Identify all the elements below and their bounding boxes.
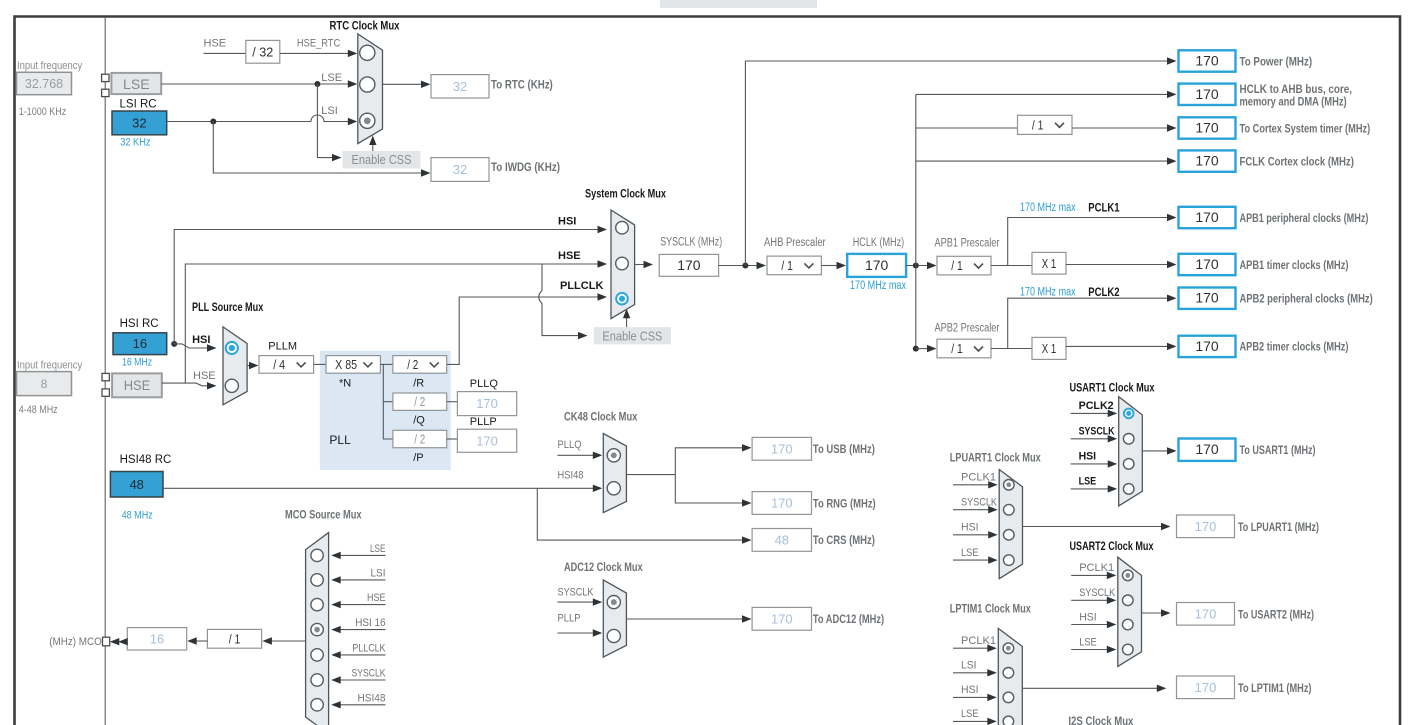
svg-text:HSI: HSI — [558, 215, 576, 227]
svg-text:PCLK1: PCLK1 — [1088, 203, 1120, 215]
svg-text:/ 2: / 2 — [414, 432, 425, 447]
svg-text:170: 170 — [1195, 86, 1219, 102]
svg-text:16: 16 — [133, 336, 147, 351]
svg-text:MCO Source Mux: MCO Source Mux — [285, 508, 362, 522]
svg-text:170: 170 — [771, 611, 793, 626]
stub HSE to MCO mux — [340, 604, 386, 606]
PLL internal connector — [380, 364, 393, 439]
svg-text:/Q: /Q — [413, 415, 425, 427]
svg-text:/P: /P — [413, 452, 423, 464]
svg-text:HSE_RTC: HSE_RTC — [297, 37, 340, 49]
svg-text:32: 32 — [453, 79, 467, 94]
stub HSI to LPTIM1 mux — [953, 696, 988, 698]
svg-text:32.768: 32.768 — [25, 77, 63, 91]
To LPUART1 output box — [1177, 515, 1235, 538]
PLLM divider dropdown /4 — [259, 356, 314, 374]
svg-text:170: 170 — [1195, 209, 1219, 225]
svg-text:APB2 peripheral clocks (MHz): APB2 peripheral clocks (MHz) — [1240, 292, 1373, 306]
wire Cortex divider to output — [1072, 127, 1168, 129]
AHB prescaler dropdown /1 — [767, 256, 821, 275]
stub PLLCLK to MCO mux — [340, 654, 386, 656]
FCLK Cortex output box — [1179, 150, 1236, 171]
wire PLLCLK /R to System Clock Mux — [447, 297, 599, 364]
svg-text:170: 170 — [1195, 338, 1219, 354]
svg-text:170: 170 — [1195, 441, 1219, 457]
svg-text:HSE: HSE — [193, 370, 216, 382]
svg-text:Enable CSS: Enable CSS — [602, 328, 662, 343]
svg-text:APB1 Prescaler: APB1 Prescaler — [935, 238, 1000, 250]
stub PCLK1 to LPTIM1 mux — [953, 647, 988, 649]
svg-text:To LPUART1 (MHz): To LPUART1 (MHz) — [1238, 520, 1319, 534]
svg-text:HSI: HSI — [1079, 611, 1097, 623]
svg-text:USART2 Clock Mux: USART2 Clock Mux — [1070, 539, 1154, 553]
wire LPTIM1 mux to output — [1022, 687, 1158, 689]
svg-text:/ 1: / 1 — [951, 258, 963, 273]
stub PCLK1 to LPUART1 mux — [953, 484, 989, 486]
svg-text:LPUART1 Clock Mux: LPUART1 Clock Mux — [950, 450, 1041, 464]
To LPTIM1 output box — [1177, 676, 1235, 699]
svg-text:/ 1: / 1 — [951, 341, 963, 356]
stub PLLP to ADC12 mux — [558, 632, 595, 634]
svg-text:PLL Source Mux: PLL Source Mux — [192, 300, 264, 314]
HSE oscillator box — [112, 373, 162, 397]
arrow Enable CSS to RTC mux — [372, 140, 374, 151]
input frequency box 32.768 — [17, 72, 72, 94]
PLL panel background — [320, 351, 451, 470]
svg-text:LSE: LSE — [370, 543, 386, 555]
svg-text:To Power (MHz): To Power (MHz) — [1240, 54, 1313, 68]
wire SYSCLK to AHB prescaler — [719, 265, 757, 267]
To IWDG output box — [431, 158, 489, 182]
wire /P to PLLP box — [447, 438, 458, 440]
wire PLLM to multiplier — [314, 363, 326, 365]
PLL R divider dropdown /2 — [393, 356, 447, 374]
svg-text:32: 32 — [453, 162, 467, 177]
svg-text:HSI RC: HSI RC — [120, 318, 159, 330]
svg-text:PCLK2: PCLK2 — [1088, 287, 1119, 299]
svg-text:/ 32: / 32 — [252, 44, 273, 59]
svg-text:LSE: LSE — [961, 547, 979, 559]
svg-text:X 1: X 1 — [1042, 256, 1057, 271]
stub SYSCLK to USART2 mux — [1071, 599, 1107, 601]
svg-text:HSI: HSI — [961, 522, 979, 534]
svg-text:LSI: LSI — [321, 105, 338, 117]
MCO value box 16 — [127, 628, 186, 650]
PLL Q divider box /2 — [393, 393, 447, 410]
svg-text:170: 170 — [1195, 53, 1219, 69]
svg-text:LSE: LSE — [123, 76, 150, 92]
wire to Cortex timer divider — [916, 127, 1018, 129]
svg-text:1-1000 KHz: 1-1000 KHz — [19, 106, 66, 118]
svg-text:PLLCLK: PLLCLK — [352, 642, 386, 654]
wire LSE to RTC mux — [161, 83, 348, 85]
wire CK48 to USB box — [675, 448, 743, 475]
HCLK to AHB output box — [1179, 84, 1236, 105]
svg-text:16 MHz: 16 MHz — [122, 356, 152, 368]
To Cortex timer output box — [1179, 117, 1236, 138]
svg-text:LSE: LSE — [321, 72, 342, 84]
To USART1 output box — [1179, 439, 1236, 461]
svg-text:170 MHz max: 170 MHz max — [850, 280, 906, 292]
wire /Q to PLLQ box — [447, 401, 458, 403]
svg-text:SYSCLK: SYSCLK — [1079, 587, 1116, 599]
LSI RC source box 32 — [112, 111, 167, 135]
svg-text:HSI48: HSI48 — [558, 469, 584, 481]
APB2 peripheral output box — [1179, 288, 1236, 309]
APB2 prescaler dropdown /1 — [937, 339, 991, 358]
svg-text:SYSCLK (MHz): SYSCLK (MHz) — [660, 236, 722, 248]
svg-text:16: 16 — [150, 631, 164, 646]
wire HCLK to APB prescalers — [906, 265, 928, 267]
svg-text:I2S Clock Mux: I2S Clock Mux — [1068, 714, 1133, 725]
svg-text:Input frequency: Input frequency — [17, 60, 83, 72]
wire HSE to PLL Source Mux — [185, 383, 208, 386]
svg-text:170: 170 — [476, 433, 498, 448]
To USB output box — [752, 437, 811, 460]
svg-text:HSE: HSE — [558, 250, 581, 262]
To ADC12 output box — [752, 607, 811, 630]
LPTIM1 Clock Mux body — [998, 628, 1022, 725]
RTC Clock Mux body — [358, 34, 383, 144]
stub HSI 16 to MCO mux — [340, 629, 386, 631]
wire APB2 to PCLK2 output — [1008, 298, 1168, 348]
wire APB1 prescaler out — [991, 265, 1032, 267]
junction SYSCLK to Power — [742, 263, 748, 269]
svg-text:To ADC12 (MHz): To ADC12 (MHz) — [813, 612, 884, 626]
junction LSE branch — [314, 81, 320, 87]
svg-text:HSI 16: HSI 16 — [355, 617, 385, 629]
junction LSI branch — [210, 119, 216, 125]
APB1 prescaler dropdown /1 — [937, 256, 991, 275]
svg-text:170: 170 — [865, 257, 889, 273]
wire MCO divider to value box — [196, 640, 208, 642]
svg-text:LSE: LSE — [961, 708, 979, 720]
stub LSE to LPTIM1 mux — [953, 720, 988, 722]
wire MCO mux to /1 divider — [271, 640, 306, 642]
wire HSI to PLL Source Mux — [174, 344, 208, 348]
wire LSE to RTC Enable CSS — [317, 84, 333, 158]
USART2 Clock Mux body — [1118, 557, 1142, 666]
svg-text:HSI48: HSI48 — [358, 692, 386, 704]
svg-text:PCLK1: PCLK1 — [1079, 562, 1114, 574]
HSI RC source box 16 — [113, 333, 167, 355]
wire APB2 X1 to timer output — [1066, 345, 1168, 347]
svg-text:X 1: X 1 — [1042, 341, 1057, 356]
svg-text:(MHz) MCO: (MHz) MCO — [49, 636, 102, 648]
SYSCLK value box — [659, 254, 718, 276]
stub PCLK2 to USART1 mux — [1071, 412, 1109, 414]
svg-text:To Cortex System timer (MHz): To Cortex System timer (MHz) — [1240, 121, 1371, 135]
stub LSE to MCO mux — [340, 554, 386, 556]
svg-text:PCLK1: PCLK1 — [961, 635, 996, 647]
svg-text:HSI: HSI — [961, 684, 979, 696]
svg-text:LPTIM1 Clock Mux: LPTIM1 Clock Mux — [950, 602, 1031, 616]
APB1 peripheral output box — [1179, 207, 1236, 228]
svg-text:170: 170 — [476, 396, 498, 411]
stub SYSCLK to MCO mux — [340, 679, 386, 681]
svg-text:LSI RC: LSI RC — [120, 98, 157, 110]
LSE pin checkbox upper — [102, 74, 109, 81]
PLLQ value box — [457, 392, 516, 416]
wire HSI48 to CRS box — [537, 488, 743, 540]
wire CK48 to RNG box — [675, 475, 743, 503]
svg-text:APB2 timer clocks (MHz): APB2 timer clocks (MHz) — [1240, 340, 1349, 354]
svg-text:/ 1: / 1 — [781, 258, 793, 273]
stub HSI to USART1 mux — [1071, 463, 1109, 465]
HSE RTC divider /32 box — [246, 40, 280, 63]
wire RTC mux to RTC box — [383, 83, 423, 85]
CK48 Clock Mux body — [603, 434, 626, 513]
svg-text:PLLP: PLLP — [470, 416, 497, 428]
HCLK value box — [847, 254, 906, 277]
svg-text:HSE: HSE — [204, 37, 227, 49]
svg-text:To USART2 (MHz): To USART2 (MHz) — [1238, 607, 1314, 621]
svg-text:PLLCLK: PLLCLK — [560, 280, 603, 292]
svg-text:To IWDG (KHz): To IWDG (KHz) — [491, 160, 560, 174]
svg-text:170: 170 — [1195, 680, 1217, 695]
svg-text:LSE: LSE — [1079, 636, 1097, 648]
svg-text:PLLQ: PLLQ — [470, 378, 499, 390]
MCO pin square — [103, 637, 110, 646]
svg-text:To RTC (KHz): To RTC (KHz) — [491, 77, 553, 91]
svg-text:170: 170 — [771, 441, 793, 456]
APB2 timer output box — [1179, 336, 1236, 357]
svg-text:CK48 Clock Mux: CK48 Clock Mux — [564, 410, 638, 424]
svg-text:To LPTIM1 (MHz): To LPTIM1 (MHz) — [1238, 681, 1312, 695]
svg-text:FCLK Cortex clock (MHz): FCLK Cortex clock (MHz) — [1240, 154, 1354, 168]
svg-text:To CRS (MHz): To CRS (MHz) — [813, 533, 875, 547]
svg-text:HCLK (MHz): HCLK (MHz) — [853, 237, 905, 249]
stub LSI to MCO mux — [340, 579, 386, 581]
svg-text:PLLP: PLLP — [558, 613, 581, 625]
svg-text:APB1 timer clocks (MHz): APB1 timer clocks (MHz) — [1240, 258, 1349, 272]
svg-text:/ 2: / 2 — [407, 357, 418, 372]
svg-text:HSI: HSI — [1079, 451, 1097, 463]
svg-text:PLL: PLL — [329, 433, 351, 447]
wire APB1 to PCLK1 output — [1008, 218, 1168, 266]
HSI48 RC source box 48 — [110, 472, 163, 498]
wire APB2 prescaler out — [991, 348, 1032, 350]
LSE oscillator box — [111, 73, 161, 94]
top scrollbar thumb — [660, 0, 817, 8]
svg-text:8: 8 — [41, 377, 48, 391]
svg-text:170: 170 — [1195, 290, 1219, 306]
svg-text:/R: /R — [413, 377, 424, 389]
svg-text:PCLK1: PCLK1 — [961, 472, 996, 484]
junction HSI output — [171, 341, 177, 347]
PLLP value box — [457, 429, 516, 452]
svg-text:X 85: X 85 — [335, 357, 357, 372]
wire /32 to RTC mux — [280, 52, 349, 54]
svg-text:LSI: LSI — [961, 660, 977, 672]
stub SYSCLK to LPUART1 mux — [953, 509, 989, 511]
svg-text:To USART1 (MHz): To USART1 (MHz) — [1240, 443, 1316, 457]
To Power output box — [1179, 50, 1236, 71]
APB1 timer output box — [1179, 254, 1236, 275]
wire HSE to System Clock Mux — [162, 264, 599, 383]
svg-text:ADC12 Clock Mux: ADC12 Clock Mux — [564, 560, 643, 574]
svg-text:32: 32 — [132, 115, 146, 130]
svg-text:170: 170 — [1195, 606, 1217, 621]
svg-text:Input frequency: Input frequency — [17, 360, 83, 372]
svg-text:170: 170 — [677, 257, 701, 273]
APB2 timer multiplier X1 box — [1032, 337, 1066, 359]
svg-text:To RNG (MHz): To RNG (MHz) — [813, 496, 876, 510]
svg-text:HSI48 RC: HSI48 RC — [120, 454, 172, 466]
To RNG output box — [752, 492, 811, 515]
junction APB2 — [913, 346, 919, 352]
RTC Enable CSS button — [343, 151, 421, 168]
HCLK distribution riser — [915, 94, 917, 348]
wire LSI to RTC mux with hop — [167, 115, 349, 121]
peripheral bus line — [104, 18, 106, 725]
wire HSI48 to CK48 mux — [163, 487, 594, 489]
svg-text:170: 170 — [1195, 519, 1217, 534]
wire USART2 mux to output — [1142, 612, 1163, 614]
stub LSI to LPTIM1 mux — [953, 672, 988, 674]
stub PLLQ to CK48 mux — [558, 454, 595, 456]
svg-text:HSI: HSI — [192, 334, 210, 346]
svg-text:170: 170 — [1195, 256, 1219, 272]
svg-text:48: 48 — [775, 532, 789, 547]
svg-text:PLLM: PLLM — [268, 341, 297, 353]
To CRS output box — [752, 529, 811, 552]
stub LSE to LPUART1 mux — [953, 559, 989, 561]
svg-text:To USB (MHz): To USB (MHz) — [813, 442, 875, 456]
svg-text:4-48 MHz: 4-48 MHz — [19, 404, 58, 416]
svg-text:memory and DMA (MHz): memory and DMA (MHz) — [1240, 94, 1347, 108]
svg-text:32 KHz: 32 KHz — [120, 137, 150, 149]
svg-text:170 MHz max: 170 MHz max — [1020, 202, 1076, 214]
junction HCLK — [913, 263, 919, 269]
wire PLL mux to PLLM — [247, 365, 250, 367]
To RTC output box — [431, 75, 489, 98]
System Enable CSS button — [594, 327, 671, 344]
svg-text:HSE: HSE — [124, 377, 151, 393]
stub HSI to LPUART1 mux — [953, 534, 989, 536]
stub LSE to USART1 mux — [1071, 488, 1109, 490]
arrow Enable CSS to System mux — [626, 314, 628, 327]
PLL Source Mux body — [223, 327, 247, 405]
svg-text:170: 170 — [1195, 120, 1219, 136]
stub SYSCLK to USART1 mux — [1071, 438, 1109, 440]
wire USART1 mux to output — [1142, 450, 1168, 452]
APB1 timer multiplier X1 box — [1032, 252, 1066, 274]
PLL tap to /Q — [383, 401, 393, 403]
stub LSE to USART2 mux — [1071, 649, 1107, 651]
svg-text:System Clock Mux: System Clock Mux — [585, 186, 666, 200]
svg-text:/ 1: / 1 — [229, 631, 241, 646]
wire CK48 mux output branch — [626, 474, 675, 476]
stub SYSCLK to ADC12 mux — [558, 601, 595, 603]
stub HSI to USART2 mux — [1071, 624, 1107, 626]
Cortex timer dropdown /1 — [1018, 115, 1073, 134]
PLL P divider box /2 — [393, 430, 447, 447]
svg-text:LSE: LSE — [1079, 476, 1097, 488]
svg-text:/ 4: / 4 — [273, 357, 285, 372]
MCO divider box /1 — [207, 629, 261, 648]
System Clock Mux body — [611, 210, 635, 319]
svg-text:PLLQ: PLLQ — [558, 439, 582, 451]
MCO double arrow to pin — [110, 638, 120, 645]
svg-text:AHB Prescaler: AHB Prescaler — [764, 237, 826, 249]
wire HSI to System Clock Mux — [174, 230, 598, 344]
wire to FCLK output — [916, 160, 1168, 162]
svg-text:USART1 Clock Mux: USART1 Clock Mux — [1070, 381, 1155, 395]
wire APB2 prescaler in — [916, 348, 928, 350]
wire AHB prescaler to HCLK — [821, 265, 837, 267]
svg-text:/ 2: / 2 — [414, 394, 425, 409]
wire APB1 X1 to timer output — [1066, 264, 1168, 266]
USART1 Clock Mux body — [1119, 397, 1143, 506]
svg-text:RTC Clock Mux: RTC Clock Mux — [330, 18, 400, 32]
svg-text:170 MHz max: 170 MHz max — [1020, 287, 1076, 299]
stub HSI48 to MCO mux — [340, 704, 386, 706]
wire SYSCLK to Power box — [745, 61, 1168, 266]
LPUART1 Clock Mux body — [999, 470, 1022, 579]
svg-text:APB2 Prescaler: APB2 Prescaler — [935, 323, 1000, 335]
MCO Source Mux body — [306, 533, 329, 725]
svg-text:Enable CSS: Enable CSS — [352, 152, 412, 167]
PLL tap to /R — [383, 363, 393, 365]
input frequency box 8 — [17, 372, 72, 396]
svg-text:HSE: HSE — [367, 592, 386, 604]
wire HSE to /32 divider — [204, 52, 246, 54]
svg-text:SYSCLK: SYSCLK — [558, 586, 595, 598]
ADC12 Clock Mux body — [603, 580, 626, 657]
svg-text:48 MHz: 48 MHz — [122, 510, 153, 522]
wire ADC12 mux to output — [626, 618, 743, 620]
PLL multiplier dropdown X85 — [326, 356, 380, 374]
HSE pin checkbox upper — [102, 373, 109, 380]
stub PCLK1 to USART2 mux — [1071, 574, 1107, 576]
wire LPUART1 mux to output — [1023, 526, 1163, 528]
LSE pin checkbox lower — [102, 89, 109, 96]
To USART2 output box — [1177, 603, 1235, 626]
HSE pin checkbox lower — [102, 389, 109, 396]
svg-text:SYSCLK: SYSCLK — [352, 668, 387, 680]
svg-text:170: 170 — [771, 496, 793, 511]
svg-text:48: 48 — [129, 477, 143, 492]
wire HSE branch to System Enable CSS with hop — [539, 264, 579, 336]
wire LSI to IWDG box — [213, 122, 422, 174]
svg-text:SYSCLK: SYSCLK — [961, 497, 998, 509]
svg-text:170: 170 — [1195, 153, 1219, 169]
svg-text:/ 1: / 1 — [1032, 117, 1044, 132]
wire to HCLK AHB output — [916, 93, 1168, 95]
wire System mux to SYSCLK box — [635, 264, 644, 266]
svg-text:APB1 peripheral clocks (MHz): APB1 peripheral clocks (MHz) — [1240, 211, 1369, 225]
svg-text:*N: *N — [339, 377, 351, 389]
svg-text:LSI: LSI — [371, 567, 386, 579]
